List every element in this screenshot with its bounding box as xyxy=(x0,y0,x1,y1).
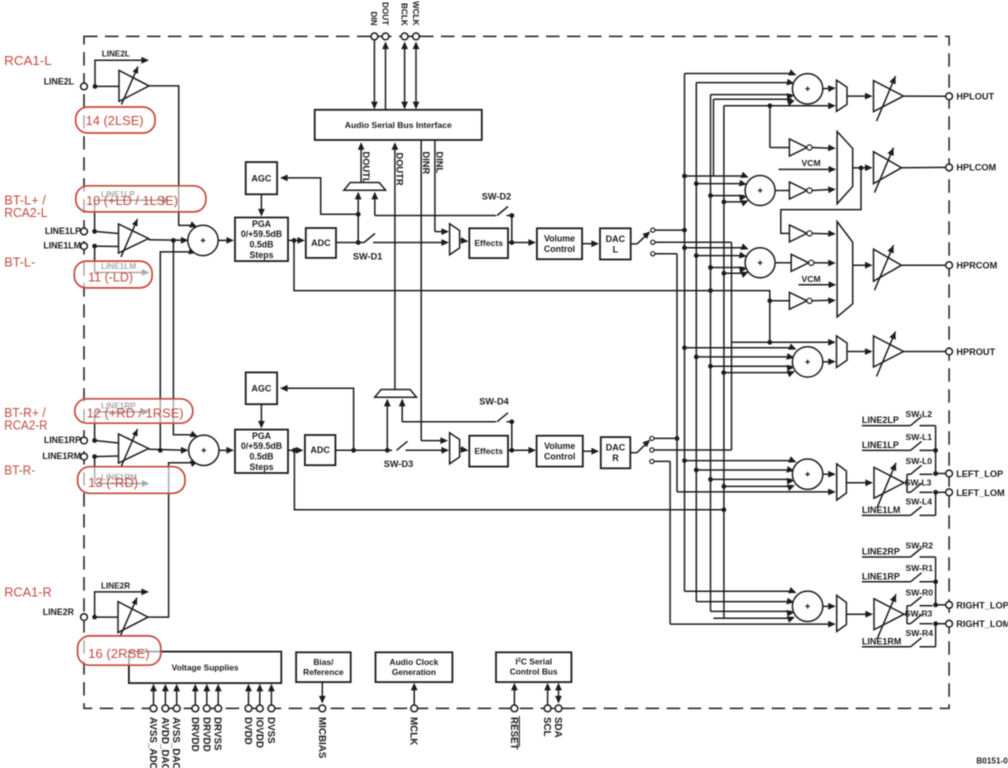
block DAC L xyxy=(600,228,631,259)
switch DAC R output selector xyxy=(630,436,654,463)
block DAC R xyxy=(601,437,631,468)
op-amp LINE1R input buffer xyxy=(95,429,149,467)
node PGA L out tap xyxy=(292,238,297,243)
svg-text:0/+59.5dB: 0/+59.5dB xyxy=(241,229,282,239)
svg-text:DOUTL: DOUTL xyxy=(361,152,371,184)
wire LINE1R amp out to sum xyxy=(149,447,189,454)
svg-text:LINE1LP: LINE1LP xyxy=(45,226,81,236)
wire PGA L to ADC L xyxy=(288,237,305,244)
svg-text:Reference: Reference xyxy=(303,667,344,677)
wire row2 inputs xyxy=(682,172,749,207)
switch DAC L output selector xyxy=(631,228,655,256)
wire AGC R feedback from ADC out xyxy=(280,385,354,450)
wire LINE1RM bypass arrow + label (under annotation) xyxy=(95,457,150,487)
block Bias/Reference xyxy=(296,652,351,682)
wire HPLCOM crossfeed to row3 buffer xyxy=(781,168,861,234)
pin RIGHT_LOM xyxy=(946,619,1008,629)
wire ADC L up to DOUTL mux xyxy=(355,192,362,243)
switch SW-D2 xyxy=(482,192,514,243)
wire DINL label xyxy=(435,140,445,232)
wire DOUT from ASBI xyxy=(382,42,389,111)
wire bufmid to mux row3 xyxy=(814,260,836,267)
block ADC R xyxy=(305,435,336,465)
pin DVSS xyxy=(265,684,276,744)
label LINE1LP + switch SW-L1 xyxy=(862,432,936,451)
svg-text:LINE1LM: LINE1LM xyxy=(43,241,81,251)
svg-text:SDA: SDA xyxy=(552,717,563,738)
block Volume Control R xyxy=(537,436,583,467)
mux DOUTR select xyxy=(375,390,417,398)
svg-text:AGC: AGC xyxy=(251,173,272,183)
svg-text:LINE2L: LINE2L xyxy=(102,50,130,59)
svg-text:LINE1LM: LINE1LM xyxy=(862,505,901,515)
svg-text:IOVDD: IOVDD xyxy=(253,717,264,748)
wire sum out to mux left lineout xyxy=(823,471,836,478)
block I2C Serial Control Bus xyxy=(496,652,571,682)
node LINE1RP junction xyxy=(92,438,97,443)
svg-text:DRVSS: DRVSS xyxy=(212,717,223,751)
svg-text:SW-R2: SW-R2 xyxy=(906,540,934,550)
pin SCL xyxy=(541,683,552,737)
summing node HPRCOM mix xyxy=(745,248,775,278)
wire DINR label xyxy=(421,140,431,441)
svg-text:DVSS: DVSS xyxy=(265,717,276,744)
switch SW-L0 xyxy=(906,456,933,474)
svg-text:SW-L4: SW-L4 xyxy=(906,496,933,506)
wire right lineout switch bus lower xyxy=(933,621,938,647)
svg-text:SW-R4: SW-R4 xyxy=(906,628,934,638)
pin DRVDD xyxy=(200,684,211,752)
wire LINE1L amp out to sum xyxy=(149,237,189,244)
pin HPRCOM xyxy=(946,261,998,271)
mux HPRCOM xyxy=(837,222,853,318)
svg-text:SW-R1: SW-R1 xyxy=(906,563,934,573)
wire amp to pin HPRCOM xyxy=(902,264,946,266)
wire bus V3 xyxy=(710,95,712,612)
pin BCLK xyxy=(399,3,408,40)
wire DINR into effects mux R xyxy=(421,437,448,444)
mux effects input L xyxy=(450,224,460,255)
svg-text:LINE2R: LINE2R xyxy=(43,607,75,617)
label VCM row2 xyxy=(779,158,837,173)
block AGC R xyxy=(246,372,277,404)
svg-text:ADC: ADC xyxy=(310,445,330,455)
switch SW-L3 xyxy=(905,477,933,492)
svg-text:RESET: RESET xyxy=(508,717,519,750)
node bus junctions xyxy=(675,228,727,513)
label VCM row3 xyxy=(799,274,837,288)
node AGC L tap xyxy=(356,212,361,217)
node left lineout amp out xyxy=(904,474,907,492)
wire bus V8 (DAC R bottom link) xyxy=(669,461,671,624)
svg-text:DAC: DAC xyxy=(606,443,626,453)
summing node HPLOUT mix xyxy=(792,74,822,104)
wire buf to mux row2 xyxy=(812,145,836,152)
svg-text:SCL: SCL xyxy=(541,717,552,737)
svg-text:DRVDD: DRVDD xyxy=(189,717,200,752)
wire mux to amp row4 xyxy=(847,348,873,355)
pin LINE2L xyxy=(44,77,88,90)
svg-text:LINE2R: LINE2R xyxy=(101,581,130,590)
op-amp HPLCOM driver xyxy=(874,148,902,193)
pin AVSS_ADC xyxy=(147,684,158,768)
wire SW-D4 line into DOUTR mux xyxy=(399,399,496,422)
svg-text:SW-L1: SW-L1 xyxy=(906,432,933,442)
svg-text:SW-L2: SW-L2 xyxy=(906,409,933,419)
svg-text:SW-L3: SW-L3 xyxy=(905,477,932,487)
pin LINE1RM xyxy=(42,451,87,461)
svg-text:RCA1-L: RCA1-L xyxy=(4,53,52,68)
switch SW-R3 xyxy=(905,609,933,624)
wire sum to PGA R xyxy=(219,447,234,454)
wire LINE1LM bypass arrow + label (under annotation) xyxy=(95,246,150,276)
wire sum out to mux row1 xyxy=(823,85,836,92)
wire mux to Effects L xyxy=(460,237,469,244)
inverting buffer row2 bottom xyxy=(789,182,812,199)
svg-text:LINE2LP: LINE2LP xyxy=(862,415,899,425)
wire LOP node to pin xyxy=(936,473,946,475)
switch SW-R0 xyxy=(906,588,934,606)
svg-text:BT-R-: BT-R- xyxy=(4,463,35,478)
node Effects L out junction xyxy=(509,240,514,245)
annotation box 12 (+RD / 1RSE) xyxy=(75,399,193,423)
wire DAC feed into left lineout mux xyxy=(677,489,836,496)
pin IOVDD xyxy=(253,684,264,748)
wire mux out row3 xyxy=(853,262,873,269)
block Audio Clock Generation xyxy=(376,652,453,682)
annotation box 11 (-LD) xyxy=(74,261,152,288)
wire PGA R to ADC R xyxy=(288,447,304,454)
svg-text:VCM: VCM xyxy=(802,274,821,284)
svg-text:Steps: Steps xyxy=(250,462,274,472)
wire DIN to ASBI xyxy=(371,40,378,109)
wire VolCtl L to DAC L xyxy=(582,240,599,247)
wire sum to buffer row3 xyxy=(775,262,791,264)
svg-text:DAC: DAC xyxy=(606,234,626,244)
wire amp to pin HPLCOM xyxy=(902,166,946,168)
node LINE1LP junction xyxy=(92,229,97,234)
inverting buffer row3 top xyxy=(789,225,812,242)
op-amp HPROUT driver xyxy=(874,332,904,377)
pin SDA xyxy=(552,683,563,738)
svg-text:ADC: ADC xyxy=(311,238,331,248)
wire PGA L tap to mixer bus xyxy=(294,240,770,300)
svg-text:AGC: AGC xyxy=(251,383,272,393)
svg-text:Audio Serial Bus Interface: Audio Serial Bus Interface xyxy=(345,120,452,130)
chip boundary (dashed border) xyxy=(84,36,949,708)
svg-text:0.5dB: 0.5dB xyxy=(250,240,274,250)
svg-text:Control: Control xyxy=(544,244,575,254)
summing node HPLCOM mix xyxy=(745,176,775,206)
wire LINE2L amp out to left PGA mix xyxy=(149,86,198,228)
node AGC R tap xyxy=(351,448,356,453)
svg-text:MCLK: MCLK xyxy=(408,717,419,745)
svg-text:Control: Control xyxy=(544,451,575,461)
wire buf2 to mux row2 xyxy=(812,186,836,193)
annotation BT-R- xyxy=(4,463,35,478)
svg-text:RCA2-R: RCA2-R xyxy=(4,418,47,433)
wire ROP node to pin xyxy=(936,604,946,606)
svg-text:B0151-01: B0151-01 xyxy=(976,757,1008,766)
svg-text:LINE1RM: LINE1RM xyxy=(862,636,902,646)
Audio Serial Bus Interface block xyxy=(315,110,482,140)
wire mux to amp right lineout xyxy=(846,611,873,618)
svg-text:PGA: PGA xyxy=(252,431,272,441)
wire left lineout switch bus upper xyxy=(933,426,938,476)
wire row1 bypass to mux xyxy=(724,102,836,109)
svg-text:MICBIAS: MICBIAS xyxy=(316,717,327,759)
wire mux out row2 xyxy=(853,164,873,171)
wire amp to pin HPROUT xyxy=(904,351,946,353)
svg-text:Audio Clock: Audio Clock xyxy=(390,657,439,667)
wire LINE1L out crossfeed to right PGA mix xyxy=(173,240,198,437)
block AGC L xyxy=(246,162,277,194)
svg-text:RCA2-L: RCA2-L xyxy=(4,205,47,220)
pin MCLK xyxy=(408,683,419,745)
wire DAC R feed into right lineout mux xyxy=(670,621,836,628)
svg-text:SW-L0: SW-L0 xyxy=(906,456,933,466)
pin MICBIAS xyxy=(316,682,327,759)
wire LOM node to pin xyxy=(936,491,946,493)
switch SW-D3 xyxy=(384,441,449,469)
label LINE2RP + switch SW-R2 xyxy=(862,540,936,557)
svg-text:I2C Serial: I2C Serial xyxy=(515,656,552,666)
wire mux to amp row1 xyxy=(847,93,873,100)
mux right lineout xyxy=(837,595,847,631)
mux DOUTL select xyxy=(344,183,386,191)
svg-text:WCLK: WCLK xyxy=(411,1,420,26)
wire PGA R tap to mixer bus xyxy=(294,450,724,510)
wire mux to Effects R xyxy=(460,446,469,453)
wire DAC L top contact to bus V1 xyxy=(655,229,685,231)
svg-text:L: L xyxy=(613,244,619,254)
wire DAC R mid contact to bus V6 xyxy=(654,449,732,451)
node LINE2R junction xyxy=(92,615,97,620)
svg-text:AVDD_DAC: AVDD_DAC xyxy=(159,717,170,768)
pin AVDD_DAC xyxy=(159,684,170,768)
wire DAC R top contact to bus V7 xyxy=(654,437,677,439)
mux HPLCOM xyxy=(837,132,853,204)
wire sum to buffer row2 xyxy=(775,190,789,192)
svg-text:LINE2L: LINE2L xyxy=(44,77,75,87)
svg-text:Effects: Effects xyxy=(474,238,503,248)
svg-text:LINE1RP: LINE1RP xyxy=(862,571,900,581)
annotation RCA1-L xyxy=(4,53,52,68)
svg-text:SW-D1: SW-D1 xyxy=(353,251,382,261)
wire DAC R bottom contact to bus V8 xyxy=(654,460,670,462)
svg-text:Bias/: Bias/ xyxy=(313,657,334,667)
inverting buffer row3 mid xyxy=(791,254,814,271)
pin LINE2R xyxy=(43,607,88,621)
op-amp HPRCOM driver xyxy=(874,245,902,290)
pin HPLCOM xyxy=(946,163,997,173)
summing node right lineout mix xyxy=(792,591,822,621)
wire LINE1RP bypass arrow + label (under annotation) xyxy=(95,402,150,441)
wire row1 tap down to row2 inv buffer xyxy=(770,106,790,148)
wire DAC L mid contact to bus V6 xyxy=(655,241,732,243)
inverting buffer row2 top xyxy=(789,139,812,156)
wire buf to mux row3 xyxy=(812,230,836,237)
pin DOUT xyxy=(380,2,389,40)
wire AGC L to PGA L xyxy=(258,194,265,216)
pin HPROUT xyxy=(946,347,996,357)
wire ADC R up to DOUTR mux xyxy=(384,399,391,451)
svg-text:Generation: Generation xyxy=(392,667,436,677)
op-amp LINE2R input buffer xyxy=(95,598,148,636)
node LINE1RM junction xyxy=(92,454,97,459)
wire row3 inputs xyxy=(682,243,749,278)
wire row4 bypass tap up to row3 bottom buffer xyxy=(767,298,789,342)
inverting buffer row3 bottom xyxy=(789,292,812,309)
wire DOUTR label xyxy=(392,142,405,389)
svg-text:LEFT_LOP: LEFT_LOP xyxy=(956,469,1003,479)
svg-text:HPROUT: HPROUT xyxy=(956,347,995,357)
wire sum out to mux right lineout xyxy=(823,603,836,610)
wire DAC L bottom contact to bus V7 xyxy=(655,253,677,255)
block Effects L xyxy=(469,228,508,258)
wire sum to PGA L xyxy=(218,237,234,244)
summing node left PGA mix xyxy=(188,225,218,255)
svg-text:Effects: Effects xyxy=(474,446,503,456)
node LINE1L out junction xyxy=(171,238,176,243)
wire LINE1R out crossfeed to left PGA mix xyxy=(160,248,196,450)
svg-text:DRVDD: DRVDD xyxy=(200,717,211,752)
annotation box 14 (2LSE) xyxy=(76,107,155,133)
wire bus V4 xyxy=(713,99,715,176)
node right lineout amp out xyxy=(904,606,907,624)
pin DVDD xyxy=(242,684,253,745)
svg-text:10 (+LD / 1LSE): 10 (+LD / 1LSE) xyxy=(86,193,178,208)
svg-text:RIGHT_LOM: RIGHT_LOM xyxy=(956,619,1008,629)
svg-text:LINE1RP: LINE1RP xyxy=(44,435,81,445)
summing node HPROUT mix xyxy=(792,347,822,377)
pin LEFT_LOM xyxy=(946,488,1005,498)
block Effects R xyxy=(469,436,508,467)
svg-text:SW-R3: SW-R3 xyxy=(905,609,933,619)
svg-text:DINR: DINR xyxy=(421,152,431,175)
op-amp LINE1L input buffer xyxy=(95,219,149,257)
svg-text:SW-D4: SW-D4 xyxy=(479,396,509,406)
svg-text:DINL: DINL xyxy=(435,152,445,174)
wire VolCtl R to DAC R xyxy=(583,448,599,455)
mux HPROUT xyxy=(837,336,848,368)
wire ADC L out xyxy=(337,242,364,244)
svg-text:DVDD: DVDD xyxy=(242,717,253,745)
op-amp RIGHT_LO driver xyxy=(874,594,904,639)
svg-text:LINE1RM: LINE1RM xyxy=(42,451,81,461)
summing node right PGA mix xyxy=(189,435,219,465)
svg-text:Control Bus: Control Bus xyxy=(510,666,558,676)
svg-text:R: R xyxy=(612,453,619,463)
svg-text:0.5dB: 0.5dB xyxy=(250,452,274,462)
op-amp LEFT_LO driver xyxy=(874,463,904,508)
wire bus V2 xyxy=(695,83,697,602)
svg-text:DOUT: DOUT xyxy=(380,2,389,25)
label LINE2LP + switch SW-L2 xyxy=(862,409,936,426)
wire row4 bypass to mux xyxy=(732,339,836,346)
wire right lineout inputs xyxy=(685,587,797,623)
wire left lineout switch bus lower xyxy=(933,490,938,516)
wire ROM node to pin xyxy=(936,623,946,625)
svg-text:Voltage Supplies: Voltage Supplies xyxy=(172,662,239,672)
annotation box 10 (+LD / 1LSE) xyxy=(76,186,206,212)
pin LEFT_LOP xyxy=(946,469,1003,479)
svg-text:16 (2RSE): 16 (2RSE) xyxy=(88,646,150,661)
svg-text:14 (2LSE): 14 (2LSE) xyxy=(86,113,144,128)
wire left lineout inputs xyxy=(682,456,796,491)
svg-text:RIGHT_LOP: RIGHT_LOP xyxy=(956,601,1008,611)
svg-text:AVSS_ADC: AVSS_ADC xyxy=(147,717,158,768)
pin LINE1LM xyxy=(43,241,87,251)
pin LINE1LP xyxy=(45,226,88,236)
mux HPLOUT xyxy=(837,80,848,111)
wire DINL into effects mux L xyxy=(435,228,449,235)
svg-text:VCM: VCM xyxy=(802,158,821,168)
switch SW-D4 xyxy=(479,396,514,450)
wire ADC R out xyxy=(335,449,392,451)
op-amp HPLOUT driver xyxy=(874,76,904,121)
svg-text:0/+59.5dB: 0/+59.5dB xyxy=(241,441,282,451)
wire LINE2R bypass arrow + label xyxy=(95,581,149,617)
op-amp LINE2L input buffer xyxy=(95,66,149,104)
pin LINE1RP xyxy=(44,435,88,445)
wire LINE1LP bypass arrow + label (under annotation) xyxy=(95,190,170,231)
svg-text:DIN: DIN xyxy=(369,12,378,26)
block Volume Control L xyxy=(537,228,582,259)
wire row1 inputs xyxy=(685,69,797,106)
wire LINE2R amp out to right PGA mix xyxy=(148,461,198,617)
svg-text:SW-R0: SW-R0 xyxy=(906,588,934,598)
svg-text:BT-L-: BT-L- xyxy=(4,254,35,269)
svg-text:12 (+RD / 1RSE): 12 (+RD / 1RSE) xyxy=(87,405,184,420)
svg-text:HPLCOM: HPLCOM xyxy=(956,163,996,173)
svg-text:SW-D2: SW-D2 xyxy=(482,192,511,202)
wire DOUTL label xyxy=(358,142,371,190)
block PGA L xyxy=(235,218,288,262)
svg-text:LEFT_LOM: LEFT_LOM xyxy=(956,488,1005,498)
wire BCLK bidirectional xyxy=(401,42,408,110)
node LINE1R out junction xyxy=(158,448,163,453)
node Effects R out junction xyxy=(509,448,514,453)
wire bufbot to mux row3 xyxy=(812,297,836,304)
pin DRVDD xyxy=(189,684,200,752)
label LINE1LM + switch SW-L4 xyxy=(862,496,936,515)
svg-text:11 (-LD): 11 (-LD) xyxy=(88,270,133,285)
svg-text:BCLK: BCLK xyxy=(399,3,408,26)
pin WCLK xyxy=(411,1,420,40)
wire row4 inputs xyxy=(682,344,796,378)
pin DIN xyxy=(369,12,378,40)
wire amp to pin HPLOUT xyxy=(904,95,946,97)
wire SW-D2 line into DOUTL mux xyxy=(371,192,496,216)
node PGA R out tap xyxy=(292,448,297,453)
svg-text:RCA1-R: RCA1-R xyxy=(4,584,52,599)
mux left lineout xyxy=(837,464,847,500)
svg-text:Steps: Steps xyxy=(250,250,274,260)
mux effects input R xyxy=(450,433,460,464)
wire Effects L out xyxy=(508,239,536,246)
wire right lineout switch bus upper xyxy=(933,557,938,607)
svg-text:HPRCOM: HPRCOM xyxy=(956,261,997,271)
wire WCLK bidirectional xyxy=(413,42,420,110)
block Voltage Supplies xyxy=(129,652,281,684)
wire mux to amp left lineout xyxy=(846,479,873,486)
svg-text:PGA: PGA xyxy=(252,219,272,229)
label B0151-01 xyxy=(976,757,1008,766)
pin RESET xyxy=(508,683,519,750)
wire bus V7 (DAC bottom links) xyxy=(676,254,678,492)
wire Effects R out xyxy=(508,447,536,454)
